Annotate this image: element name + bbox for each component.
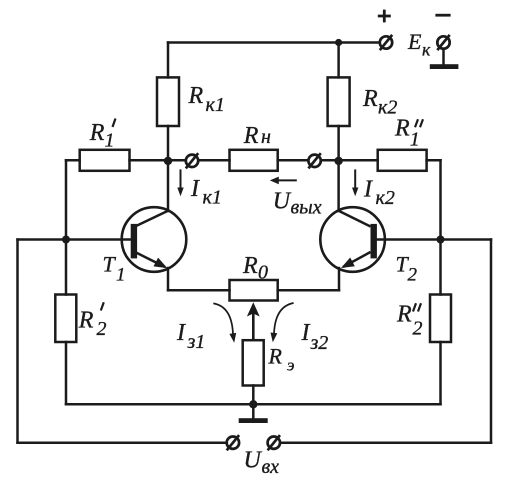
resistor R0: [230, 280, 278, 301]
svg-text:I: I: [301, 320, 311, 346]
resistor Rк1: [157, 77, 179, 126]
junction node base T2: [437, 236, 445, 244]
transistor T1: [122, 207, 187, 272]
ground stub center: [252, 404, 255, 418]
resistor R2': [55, 295, 76, 343]
svg-text:1: 1: [105, 130, 115, 152]
svg-text:2: 2: [413, 318, 423, 340]
wire bottom bus: [66, 403, 441, 406]
terminal Ek minus: [437, 35, 449, 50]
resistor Rэ: [243, 340, 264, 385]
wire right inner vertical upper: [439, 160, 442, 294]
svg-text:U: U: [273, 188, 292, 214]
svg-text:к1: к1: [203, 187, 222, 209]
arrow Uвых: [278, 179, 297, 181]
wire Uвх left: [18, 441, 227, 444]
wire right outer vertical: [490, 240, 493, 443]
svg-text:I: I: [190, 176, 200, 202]
junction node collector T1: [164, 157, 172, 165]
junction node base T1: [62, 236, 70, 244]
wire Rн to terminal: [278, 159, 309, 162]
wire T2 emitter drop: [338, 268, 341, 290]
wire left outer vertical: [16, 240, 19, 443]
svg-text:T: T: [103, 252, 117, 277]
plus sign: [378, 10, 391, 23]
junction node collector T2: [334, 157, 342, 165]
arrow curved I32: [274, 303, 294, 334]
resistor R1': [80, 150, 130, 171]
svg-text:R: R: [188, 83, 204, 109]
arrow Iк2: [354, 169, 356, 188]
svg-text:2: 2: [408, 265, 418, 286]
svg-text:з1: з1: [187, 331, 206, 353]
svg-text:к1: к1: [206, 94, 225, 116]
svg-text:E: E: [407, 29, 422, 54]
wire left collector drop from top: [167, 43, 170, 78]
terminal Uвх left: [227, 435, 239, 450]
wire stub R1' left: [66, 159, 80, 162]
svg-text:R: R: [89, 120, 105, 146]
junction node bottom: [249, 400, 257, 408]
svg-text:вых: вых: [291, 197, 322, 219]
svg-text:1: 1: [410, 129, 420, 151]
wire right inner vertical lower: [439, 342, 442, 404]
wire Rк2 to collector node: [337, 126, 340, 211]
minus sign: [435, 14, 450, 17]
svg-text:к: к: [422, 40, 431, 60]
wire T1 base: [18, 238, 131, 241]
resistor R2'': [430, 295, 451, 343]
svg-text:R: R: [396, 302, 412, 328]
svg-text:н: н: [261, 126, 271, 148]
arrow R0 wiper: [252, 312, 255, 340]
wire top horizontal to Ek: [168, 41, 379, 44]
junction node top: [335, 39, 342, 46]
wire R1' to node: [130, 159, 186, 162]
wire right drop from top to Rк2: [337, 43, 340, 78]
wire emitter row right: [278, 289, 339, 292]
wire terminal to right node: [321, 159, 378, 162]
resistor Rк2: [328, 77, 350, 126]
svg-text:R: R: [78, 308, 94, 334]
ground center: [239, 418, 268, 423]
wire Rэ to bottom node: [252, 386, 255, 405]
svg-text:0: 0: [258, 262, 268, 284]
svg-text:R: R: [243, 123, 259, 149]
wire node to Rн: [199, 159, 230, 162]
arrow Iк1: [180, 169, 182, 188]
svg-text:э: э: [287, 356, 295, 375]
resistor Rн: [230, 150, 278, 171]
wire left inner vertical upper: [65, 160, 68, 294]
wire T1 emitter drop: [167, 268, 170, 290]
ground Ek: [430, 64, 459, 69]
wire Rк1 to collector node: [167, 126, 170, 211]
svg-text:з2: з2: [310, 332, 329, 354]
terminal Ek plus: [380, 35, 392, 50]
wire Uвх right: [280, 441, 491, 444]
svg-text:R: R: [242, 253, 258, 279]
svg-text:к2: к2: [376, 187, 395, 209]
resistor R1'': [378, 150, 427, 171]
transistor T2: [320, 207, 385, 272]
wire emitter row left: [168, 289, 230, 292]
svg-text:U: U: [244, 448, 263, 474]
wire left inner vertical lower: [65, 342, 68, 404]
svg-text:2: 2: [97, 318, 107, 340]
svg-text:вх: вх: [262, 456, 280, 478]
svg-text:I: I: [176, 320, 186, 346]
terminal Uвх right: [268, 435, 280, 450]
wire Ek minus stub: [442, 49, 445, 64]
terminal left on Rн row: [186, 153, 198, 168]
wire stub R1'' right: [427, 159, 441, 162]
svg-text:I: I: [363, 177, 373, 203]
wire T2 base: [377, 238, 491, 241]
svg-text:R: R: [394, 116, 410, 142]
arrow curved I31: [213, 303, 233, 334]
svg-text:R: R: [362, 86, 378, 112]
svg-text:R: R: [268, 343, 283, 368]
svg-text:1: 1: [116, 265, 126, 286]
terminal right on Rн row: [308, 153, 320, 168]
